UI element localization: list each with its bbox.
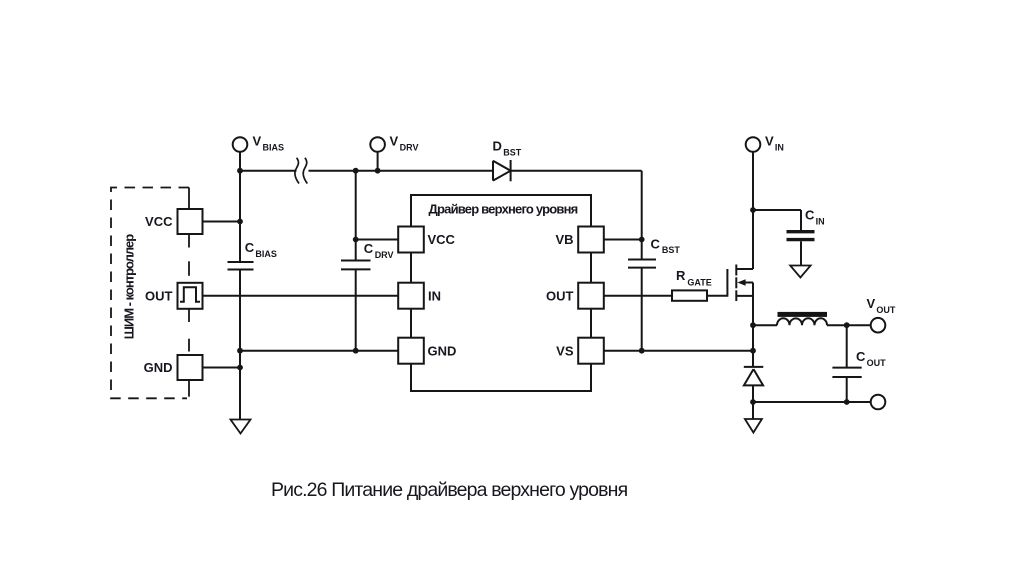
svg-text:ШИМ - контроллер: ШИМ - контроллер [122,234,137,339]
svg-text:CBST: CBST [651,236,681,255]
svg-text:CIN: CIN [805,208,825,227]
svg-text:VOUT: VOUT [867,296,896,315]
svg-text:Рис.26 Питание драйвера верхне: Рис.26 Питание драйвера верхнего уровня [271,479,628,501]
svg-text:IN: IN [428,288,441,303]
svg-text:GND: GND [428,343,457,358]
svg-text:COUT: COUT [856,349,886,368]
svg-text:Драйвер верхнего уровня: Драйвер верхнего уровня [429,202,578,217]
svg-text:OUT: OUT [546,288,574,303]
svg-text:RGATE: RGATE [676,268,712,288]
svg-text:CBIAS: CBIAS [245,240,277,259]
svg-text:VB: VB [555,232,573,247]
svg-text:VDRV: VDRV [390,134,419,153]
svg-text:VIN: VIN [765,134,784,153]
svg-text:OUT: OUT [145,288,173,303]
svg-text:VBIAS: VBIAS [253,134,284,153]
svg-text:VCC: VCC [428,232,456,247]
svg-text:GND: GND [144,360,173,375]
svg-text:VCC: VCC [145,214,173,229]
svg-text:DBST: DBST [493,139,522,158]
svg-text:CDRV: CDRV [364,241,394,260]
svg-text:VS: VS [556,343,574,358]
